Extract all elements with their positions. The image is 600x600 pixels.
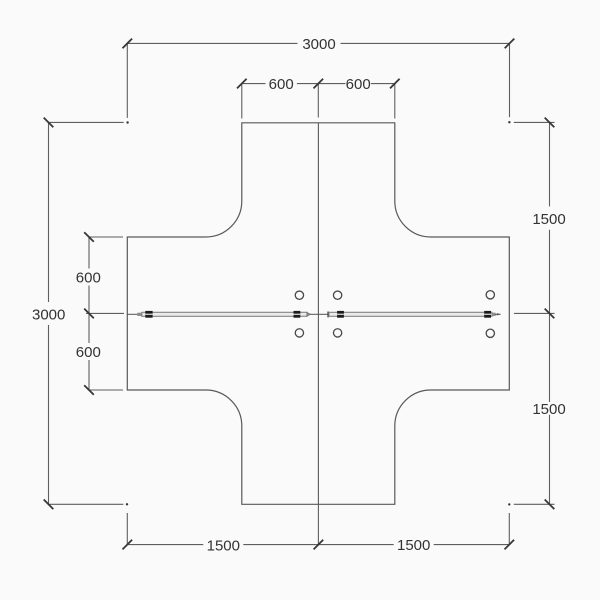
rod right end cap [492,313,496,316]
svg-text:1500: 1500 [207,537,240,554]
dim top 600 ticks [237,79,400,89]
rod right band [329,312,492,316]
dim bottom 1500 line [127,544,509,546]
dim left 3000 tick bottom [44,500,54,510]
rod right flange [327,312,328,318]
dim left 600 ext lines [86,237,124,390]
dim left 3000 line [48,122,50,504]
dim bottom 1500 ticks [123,540,515,550]
svg-text:1500: 1500 [532,211,565,228]
svg-text:600: 600 [76,344,101,361]
grommet holes [295,291,494,338]
rod left inner thin line [310,313,318,315]
svg-text:3000: 3000 [32,306,65,323]
dim top 3000 ext right [509,43,511,117]
dim top 3000 tick left [123,39,133,49]
clamp 1 [145,311,152,318]
rod left inner taper [307,312,311,316]
clamp stripes [145,313,491,315]
desk outline (cross shape) [127,123,509,505]
dim top 600 ext lines [242,84,395,119]
svg-text:1500: 1500 [532,401,565,418]
rod right tip line [495,313,501,315]
rod right arrow tip [497,313,501,315]
corner dot bottom-left [126,503,128,505]
rod left thin line [127,313,138,315]
dim top 600 line [242,83,395,85]
corner dot top-right [508,121,510,123]
clamp 4 [484,311,491,318]
svg-text:600: 600 [76,270,101,287]
corner dot bottom-right [508,503,510,505]
svg-text:600: 600 [269,76,294,93]
dim right 1500 ext lines [514,122,555,504]
dim left 600 line [88,237,90,390]
dim bottom 1500 ext right [508,513,510,545]
dim top 3000 line [127,42,509,44]
dim left 600 ticks [84,232,94,395]
centre seam line [317,123,319,505]
svg-text:1500: 1500 [397,537,430,554]
rod right thin line [318,313,327,315]
svg-text:600: 600 [346,76,371,93]
dim right 1500 ticks [545,118,555,510]
dim top 3000 ext left [126,43,128,118]
rod left end cap [137,313,145,316]
dim left 3000 ext top [49,121,124,123]
corner dot top-left [126,121,128,123]
dim left 3000 tick top [44,118,54,128]
dim right 1500 line [549,122,551,504]
clamp 3 [337,311,344,318]
clamp 2 [294,311,301,318]
dim bottom 1500 ext middle [317,504,319,544]
svg-text:3000: 3000 [302,36,335,53]
dim left 3000 ext bottom [49,503,124,505]
rod left band [142,312,307,316]
dim top 3000 tick right [505,39,515,49]
dim bottom 1500 ext left [126,513,128,545]
